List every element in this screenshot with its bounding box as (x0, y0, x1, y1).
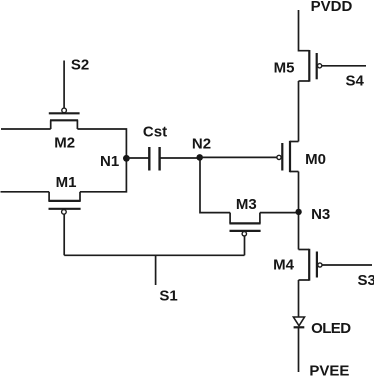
wire M2 source to left edge (1, 128, 51, 130)
svg-text:S3: S3 (358, 272, 374, 289)
transistor M2 (49, 108, 80, 129)
transistor M3 (229, 213, 260, 236)
wire S1 stub (155, 255, 157, 285)
wire N1 to capacitor Cst (126, 157, 149, 159)
wire M3 drain to node N3 (260, 212, 299, 214)
svg-text:N1: N1 (100, 153, 119, 170)
transistor M1 (48, 192, 80, 214)
transistor M0 (277, 141, 299, 172)
wire M5 source to M0 drain (298, 81, 300, 142)
wire M0 source to N3 and M4 drain (298, 172, 300, 250)
svg-text:M2: M2 (54, 135, 75, 152)
wire Cst to node N2 (160, 157, 200, 159)
wire M1 gate down to S1 line (63, 214, 65, 255)
wire M2 drain to node N1 (77, 129, 126, 158)
wire M1 source to left edge (1, 191, 50, 193)
svg-text:M0: M0 (305, 151, 326, 168)
svg-text:S4: S4 (346, 73, 365, 90)
wire N2 to M0 gate (200, 156, 277, 158)
svg-text:N2: N2 (192, 136, 211, 153)
wire M5 gate to S4 (322, 65, 366, 67)
wire S2 to M2 gate (63, 61, 65, 108)
transistor M4 (299, 249, 323, 281)
svg-text:N3: N3 (311, 206, 330, 223)
wire N2 down to M3 source (200, 157, 230, 212)
svg-text:Cst: Cst (143, 124, 167, 141)
svg-text:OLED: OLED (311, 320, 351, 337)
svg-text:M4: M4 (273, 257, 294, 274)
node N3 (295, 209, 301, 215)
wire M4 source to OLED anode (298, 280, 300, 317)
node N2 (196, 154, 203, 161)
wire OLED cathode to PVEE (298, 327, 300, 372)
capacitor Cst (149, 147, 159, 171)
svg-text:PVDD: PVDD (311, 0, 353, 15)
node N1 (123, 155, 130, 162)
svg-text:M5: M5 (274, 60, 295, 77)
svg-text:S1: S1 (159, 288, 177, 305)
wire PVDD rail to M5 drain (299, 10, 310, 51)
svg-text:M1: M1 (56, 174, 77, 191)
wire M1 drain to node N1 (80, 158, 126, 192)
svg-text:M3: M3 (236, 196, 257, 213)
wire S1 line (64, 254, 244, 256)
wire M4 gate to S3 (322, 264, 372, 266)
transistor M5 (299, 50, 322, 82)
svg-text:PVEE: PVEE (309, 363, 349, 377)
diode OLED (293, 317, 304, 327)
svg-text:S2: S2 (71, 57, 89, 74)
wire M3 gate down to S1 line (244, 236, 246, 255)
